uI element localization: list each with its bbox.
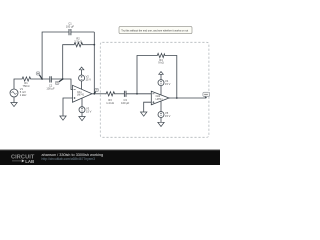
wire OA2 output <box>169 97 206 99</box>
op-amp OA2 <box>151 91 169 105</box>
R4 value label <box>158 58 163 65</box>
wire R2 to right vertical <box>84 44 95 46</box>
supply arrow above V4 <box>159 72 164 75</box>
V4 value label <box>165 79 171 86</box>
OA1 part label <box>77 91 85 97</box>
capacitor C3 <box>124 91 126 97</box>
wire R1 to node A <box>31 78 49 80</box>
V1 value labels <box>20 87 27 97</box>
resistor R3 <box>105 92 116 96</box>
svg-text:15 V: 15 V <box>165 114 171 118</box>
C2 value label <box>46 84 55 91</box>
wire OA2 noninverting to ground <box>144 102 152 112</box>
svg-text:1 kHz: 1 kHz <box>20 93 27 97</box>
svg-text:LAB: LAB <box>25 159 34 164</box>
wire V5 to ground <box>160 118 162 123</box>
wire arrow to V2 <box>81 70 83 75</box>
node A flag <box>36 72 42 79</box>
wire feedback right vertical <box>93 32 95 94</box>
svg-text:100 µF: 100 µF <box>46 87 55 91</box>
OA2 part label <box>156 95 164 101</box>
svg-text:OA2: OA2 <box>156 95 161 98</box>
C1 value label <box>66 22 75 29</box>
resistor R1 <box>21 77 31 81</box>
R1 value label <box>23 81 30 88</box>
wire C1 branch left vertical <box>42 32 69 79</box>
svg-text:15 V: 15 V <box>86 78 92 82</box>
junction OA1 output <box>93 93 95 95</box>
resistor R2 <box>73 43 84 47</box>
output flag <box>203 92 210 98</box>
wire R4 to output vertical <box>166 56 177 98</box>
wire V4 to OA2 top <box>160 86 162 95</box>
node B flag <box>55 79 62 84</box>
voltage source V2 <box>79 75 85 81</box>
ground under V3 <box>79 117 85 121</box>
note box <box>119 27 192 34</box>
svg-text:3.3 kΩ: 3.3 kΩ <box>74 40 82 44</box>
V3 value label <box>86 106 92 113</box>
footer logo LAB <box>12 160 21 162</box>
svg-text:100 µF: 100 µF <box>66 25 75 29</box>
wire node B up to R2 <box>63 45 73 79</box>
ground at OA2 + input <box>141 112 147 116</box>
wire OA1 bottom to V3 <box>81 98 83 107</box>
ground under V1 <box>11 103 17 107</box>
svg-text:100 µF: 100 µF <box>121 101 130 105</box>
svg-text:1.4 kΩ: 1.4 kΩ <box>106 101 114 105</box>
R3 value label <box>106 98 114 105</box>
wire OA1 output rail <box>92 93 105 95</box>
V5 value label <box>165 111 171 118</box>
wire feedback up from node <box>137 56 157 94</box>
resistor R4 <box>157 53 166 57</box>
node A junction <box>41 78 43 80</box>
svg-text:Try this without the end one,: Try this without the end one, and see wh… <box>121 30 188 33</box>
op-amp OA1 <box>73 85 93 102</box>
svg-text:http://circuitlab.com/c68b4677: http://circuitlab.com/c68b4677nyxm3 <box>42 157 96 161</box>
dashed enclosure box <box>100 42 209 137</box>
capacitor C2 <box>50 76 52 82</box>
svg-text:OA1: OA1 <box>77 91 82 94</box>
V2 value label <box>86 75 92 82</box>
svg-text:15 V: 15 V <box>86 109 92 113</box>
svg-text:LM741: LM741 <box>77 95 85 97</box>
svg-text:750 Ω: 750 Ω <box>23 84 30 88</box>
voltage source V5 <box>158 112 164 118</box>
wire V3 to ground <box>81 113 83 117</box>
junction feedback node OA2 <box>136 93 138 95</box>
voltage source V1 <box>10 89 18 97</box>
wire C1 to right vertical <box>71 31 94 33</box>
footer bar <box>0 150 220 166</box>
wire V1 bottom to ground <box>13 97 15 103</box>
voltage source V4 <box>158 80 164 86</box>
wire V1 top to R1 <box>14 79 21 89</box>
ground at OA1 + input <box>60 116 66 120</box>
C3 value label <box>121 98 130 105</box>
ground under V5 <box>158 122 164 126</box>
capacitor C1 <box>69 29 71 35</box>
wire R3 to C3 <box>116 93 125 95</box>
voltage source V3 <box>79 107 85 113</box>
OA1 output flag <box>94 88 98 93</box>
node B junction <box>62 78 64 80</box>
svg-text:9 kΩ: 9 kΩ <box>158 61 163 65</box>
junction R2/C1 vertical <box>93 44 95 46</box>
wire V2 to OA1 top <box>81 81 83 89</box>
R2 value label <box>74 37 82 44</box>
wire arrow to V4 <box>160 74 162 79</box>
svg-text:15 V: 15 V <box>165 82 171 86</box>
wire C2 to node B <box>51 79 72 90</box>
junction OA2 output feedback <box>176 97 178 99</box>
wire OA2 bottom to V5 <box>160 101 162 111</box>
svg-text:LM741: LM741 <box>156 99 164 101</box>
wire C3 to OA2 inverting input <box>126 93 151 95</box>
wire OA1 noninverting to ground <box>63 98 73 116</box>
supply arrow above V2 <box>79 67 84 70</box>
